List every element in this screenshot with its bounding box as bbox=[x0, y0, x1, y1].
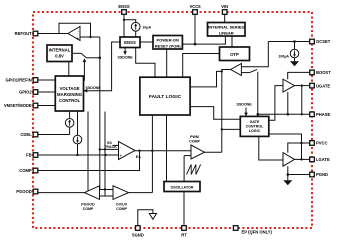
IC boundary dashed red border bbox=[33, 12, 312, 228]
svg-text:RESET (POR): RESET (POR) bbox=[155, 43, 181, 48]
junction margining rail on error amp input bbox=[104, 148, 106, 150]
junction buffer feedback on input wire bbox=[89, 36, 91, 38]
svg-text:CONTROL: CONTROL bbox=[59, 98, 81, 103]
wire upper driver to phase line bbox=[287, 92, 289, 114]
block OTP bbox=[220, 47, 250, 61]
wire internal linear to OTP bbox=[231, 36, 233, 47]
wire VIN to internal linear bbox=[224, 15, 226, 23]
svg-text:COMP: COMP bbox=[19, 168, 32, 173]
pin UGATE bbox=[310, 83, 315, 88]
svg-text:PWM: PWM bbox=[190, 135, 199, 139]
svg-text:MARGINING: MARGINING bbox=[57, 92, 83, 97]
junction comparator link upper bbox=[104, 188, 106, 190]
svg-text:CDEL: CDEL bbox=[20, 132, 32, 137]
wire fault logic to OTP step bbox=[190, 71, 222, 87]
svg-text:EP (QFN ONLY): EP (QFN ONLY) bbox=[242, 230, 273, 235]
junction UGATE sense on PHASE line bbox=[301, 113, 303, 115]
pin VMSET/MODE bbox=[33, 103, 38, 108]
junction soft start on FB line bbox=[76, 154, 78, 156]
svg-text:FB: FB bbox=[26, 153, 32, 158]
current source soft start bbox=[73, 135, 82, 144]
pin PHASE bbox=[310, 112, 315, 117]
wire POR to fault logic bbox=[166, 49, 168, 77]
svg-text:OSCILLATOR: OSCILLATOR bbox=[170, 186, 193, 190]
junction margining rail on FB line bbox=[104, 154, 106, 156]
arrowhead SSDONE stub down bbox=[123, 51, 127, 55]
block fault logic bbox=[140, 77, 190, 115]
signal ground SGND symbol bbox=[149, 214, 156, 220]
junction OCSET 100uA tap bbox=[293, 40, 296, 43]
svg-text:LINEAR: LINEAR bbox=[219, 30, 234, 35]
current source 10uA pull-up bbox=[131, 22, 140, 31]
svg-text:VOLTAGE: VOLTAGE bbox=[60, 86, 80, 91]
wire ENSS pin down to ENSS block bbox=[123, 15, 125, 38]
pin CDEL bbox=[33, 132, 38, 137]
wire reference vertical rail bbox=[99, 37, 101, 190]
junction VCC5 rail bbox=[194, 43, 197, 46]
wire OC comparator output to gate control and PWM bbox=[222, 70, 231, 153]
svg-text:TRACK: TRACK bbox=[104, 145, 117, 149]
svg-text:OCSET: OCSET bbox=[316, 39, 331, 44]
svg-text:SSDONE: SSDONE bbox=[118, 56, 134, 60]
wire fault logic down to oscillator bbox=[166, 115, 168, 182]
wire PGND line bbox=[288, 174, 310, 176]
ground below lower driver bbox=[283, 180, 292, 185]
block ENSS bbox=[120, 37, 140, 48]
wire internal 0.8V block to margining block bbox=[68, 62, 70, 77]
svg-text:COMP: COMP bbox=[116, 207, 127, 211]
wire VCC5 rail to POR and linear output bbox=[194, 15, 196, 45]
svg-text:OTP: OTP bbox=[230, 52, 239, 57]
oscillator sawtooth ramp symbol bbox=[187, 165, 201, 175]
junction reference rail on error amp input bbox=[99, 148, 101, 150]
junction LGATE line crossing bbox=[300, 158, 302, 160]
wire LGATE output bbox=[295, 158, 310, 160]
svg-text:VCC5: VCC5 bbox=[189, 4, 201, 9]
block internal series linear regulator bbox=[208, 23, 246, 37]
pin FB bbox=[33, 153, 38, 158]
pin VCC5 bbox=[193, 10, 198, 15]
comparator PGOOD bbox=[85, 186, 100, 200]
wire OC comparator output into gate control logic bbox=[222, 128, 241, 130]
pin ENSS bbox=[122, 10, 127, 15]
svg-text:PGOOD: PGOOD bbox=[16, 189, 31, 194]
junction PGND line bbox=[287, 173, 290, 176]
junction OC output crossing bbox=[221, 70, 223, 72]
arrowhead REFIN branch up to switch bbox=[83, 58, 87, 62]
svg-text:PVCC: PVCC bbox=[316, 141, 328, 146]
svg-text:INTERNAL SERIES: INTERNAL SERIES bbox=[208, 24, 244, 29]
svg-text:GPIO1/REFIN: GPIO1/REFIN bbox=[5, 78, 31, 83]
svg-text:ENSS: ENSS bbox=[124, 40, 136, 45]
current source CDEL delay bbox=[65, 119, 74, 128]
wire 100uA source from OCSET line bbox=[294, 42, 296, 50]
wire OCSET to OC comparator input bbox=[241, 42, 268, 67]
pin REFOUT bbox=[33, 31, 38, 36]
switch blade reference select bbox=[81, 53, 86, 58]
svg-text:REFOUT: REFOUT bbox=[15, 31, 32, 36]
wire switch output to reference rail bbox=[86, 57, 100, 59]
comparator OV/UV bbox=[113, 186, 129, 200]
pin PGOOD bbox=[33, 189, 38, 194]
pin EP bbox=[233, 226, 238, 231]
svg-text:100µA: 100µA bbox=[278, 55, 289, 59]
wire OCSET line bbox=[268, 41, 309, 43]
svg-text:PGND: PGND bbox=[316, 172, 328, 177]
op-amp U1 REFOUT buffer bbox=[68, 27, 80, 41]
junction UGATE sense top bbox=[301, 84, 303, 86]
wire buffer feedback loop bbox=[59, 23, 91, 37]
wire gate logic top right over to PVCC rail bbox=[269, 134, 302, 159]
junction phase sense on PHASE line bbox=[257, 113, 260, 116]
svg-text:COMP: COMP bbox=[189, 140, 200, 144]
pin GPIO2 bbox=[33, 90, 38, 95]
wire margining rail B into PGOOD comparator bbox=[87, 112, 89, 192]
wire delay source upper bbox=[69, 112, 71, 119]
wire margining rail A bbox=[104, 112, 106, 197]
wire SGND to signal ground bbox=[138, 210, 153, 226]
wire lower driver to PGND and ground bbox=[287, 166, 289, 180]
svg-text:10µA: 10µA bbox=[142, 25, 151, 29]
wire soft start source upper bbox=[77, 112, 79, 136]
comparator OC overcurrent bbox=[231, 64, 242, 76]
wire PVCC to lower driver bbox=[288, 143, 310, 153]
wire OC comparator lower input bbox=[241, 72, 249, 74]
svg-text:VMSET/MODE: VMSET/MODE bbox=[4, 103, 32, 108]
block power-on reset bbox=[153, 36, 182, 50]
junction OC output to gate logic bbox=[221, 128, 223, 130]
wire PWM comparator output bbox=[205, 151, 222, 153]
svg-text:GPIO2: GPIO2 bbox=[19, 90, 32, 95]
wire FB line bbox=[38, 154, 118, 156]
pin PGND bbox=[310, 172, 315, 177]
wire reference into error amp minus input bbox=[100, 148, 119, 150]
wire ENSS block to fault logic bbox=[136, 48, 155, 78]
pin GPIO1/REFIN bbox=[33, 78, 38, 83]
wire OV/UV comparator output bbox=[129, 192, 153, 194]
wire buffer input from reference node bbox=[80, 36, 100, 38]
wire CDEL to delay source bbox=[38, 134, 70, 136]
wire comparator input link upper bbox=[100, 189, 113, 191]
wire oscillator to PWM ramp bbox=[183, 156, 185, 182]
wire REFIN branch with up arrow to switch bbox=[83, 62, 86, 81]
svg-text:FAULT LOGIC: FAULT LOGIC bbox=[149, 94, 182, 100]
svg-text:PHASE: PHASE bbox=[316, 112, 331, 117]
junction on reference rail at switch output bbox=[99, 57, 102, 60]
pin PVCC bbox=[310, 141, 315, 146]
svg-text:PGOOD: PGOOD bbox=[81, 202, 95, 206]
wire COMP pin to error amp output bbox=[38, 151, 140, 171]
junction error amp output to COMP bbox=[138, 150, 140, 152]
svg-text:SSDONE: SSDONE bbox=[237, 103, 253, 107]
wire SSDONE arrow into gate control logic bbox=[245, 108, 247, 115]
arrowhead SSDONE into gate control logic bbox=[244, 113, 248, 117]
wire PHASE line bbox=[258, 113, 310, 115]
svg-text:RT: RT bbox=[181, 233, 187, 238]
block gate control logic bbox=[240, 116, 268, 136]
svg-text:ENSS: ENSS bbox=[118, 4, 130, 9]
junction upper driver on PHASE line bbox=[287, 113, 290, 116]
svg-text:EA: EA bbox=[136, 155, 141, 159]
wire error amp output to PWM comparator bbox=[135, 150, 191, 152]
wire OTP to fault logic bbox=[183, 54, 220, 78]
wire UGATE output bbox=[295, 85, 310, 87]
wire 10uA source to ENSS block bbox=[135, 31, 137, 37]
svg-text:BOOST: BOOST bbox=[316, 70, 331, 75]
wire ramp into PWM comparator bbox=[184, 155, 191, 157]
svg-text:UGATE: UGATE bbox=[316, 83, 330, 88]
svg-text:LOGIC: LOGIC bbox=[249, 129, 261, 133]
junction ENSS pull-up branch bbox=[123, 19, 125, 21]
current source 100uA OCSET bbox=[290, 49, 299, 58]
wire 100uA source to ground bbox=[294, 58, 296, 61]
wire branch to 10uA source bbox=[124, 20, 136, 23]
svg-text:0.8V: 0.8V bbox=[55, 54, 64, 59]
svg-text:VIN: VIN bbox=[221, 4, 228, 9]
svg-text:+: + bbox=[120, 154, 122, 158]
arrowhead SSDONE into margining block bbox=[83, 89, 87, 93]
wire SS stub into error amp bbox=[113, 144, 119, 146]
block internal 0.8V reference bbox=[47, 45, 72, 62]
svg-text:POWER-ON: POWER-ON bbox=[156, 37, 179, 42]
svg-text:LGATE: LGATE bbox=[316, 157, 330, 162]
wire UGATE sense to phase line bbox=[301, 86, 303, 115]
svg-text:OV/UV: OV/UV bbox=[116, 202, 128, 206]
block oscillator bbox=[164, 182, 200, 192]
ground below 100uA source bbox=[290, 61, 299, 66]
comparator PWM bbox=[191, 145, 205, 159]
svg-text:COMP: COMP bbox=[83, 207, 94, 211]
pin RT bbox=[182, 226, 187, 231]
wire REFOUT to buffer bbox=[38, 33, 68, 35]
switch blade phase sense bbox=[250, 69, 258, 72]
wire delay source lower bbox=[69, 127, 71, 134]
wire gate logic to lower driver input bbox=[259, 136, 283, 160]
svg-text:SGND: SGND bbox=[132, 233, 144, 238]
junction fault rail on error amp output bbox=[151, 150, 153, 152]
wire phase sense switch to gate logic top bbox=[257, 72, 259, 117]
wire SSDONE from ENSS block to margining block bbox=[85, 42, 120, 91]
wire ENSS block to POR block bbox=[140, 41, 153, 43]
wire gate logic to upper driver input bbox=[269, 86, 283, 121]
wire GPIO2 to margining block bbox=[38, 91, 56, 93]
pin SGND bbox=[136, 226, 141, 231]
pin LGATE bbox=[310, 157, 315, 162]
wire soft start source to FB bbox=[77, 144, 79, 155]
wire SSDONE stub below ENSS block bbox=[124, 48, 126, 53]
wire comparator input link lower bbox=[100, 195, 113, 197]
pin COMP bbox=[33, 168, 38, 173]
pin BOOST bbox=[310, 70, 315, 75]
wire PGOOD comparator output to pin bbox=[38, 192, 85, 194]
pins with labels bbox=[33, 10, 314, 231]
wire oscillator to RT pin bbox=[183, 192, 185, 226]
wire VMSET/MODE to margining block bbox=[38, 105, 56, 107]
svg-text:SSDONE: SSDONE bbox=[86, 86, 102, 90]
svg-text:CONTROL: CONTROL bbox=[246, 124, 265, 128]
wire BOOST to upper driver bbox=[288, 72, 310, 79]
svg-text:+: + bbox=[77, 36, 79, 40]
svg-text:GATE: GATE bbox=[250, 120, 260, 124]
junction PVCC rail crossing bbox=[300, 142, 302, 144]
pin OCSET bbox=[310, 39, 315, 44]
buffer upper gate driver bbox=[283, 79, 295, 92]
block voltage margining control bbox=[55, 76, 83, 111]
wire fault logic to gate control logic bbox=[190, 107, 240, 120]
pin VIN bbox=[222, 10, 227, 15]
svg-text:INTERNAL: INTERNAL bbox=[49, 48, 71, 53]
wire internal 0.8V to switch contact bbox=[72, 52, 81, 54]
wire fault logic down to OV/UV output bbox=[151, 115, 153, 193]
buffer lower gate driver bbox=[283, 153, 295, 167]
wire GPIO1/REFIN to margining block bbox=[38, 79, 56, 81]
op-amp EA error amplifier bbox=[119, 142, 136, 160]
